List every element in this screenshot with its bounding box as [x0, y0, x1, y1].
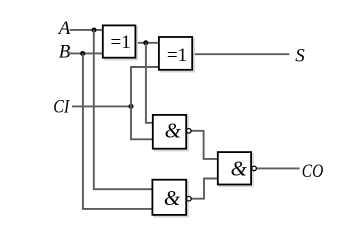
svg-text:CI: CI [53, 97, 70, 118]
wire B input [67, 52, 103, 54]
wire B branch down to NAND G2 [83, 53, 153, 209]
node B junction [80, 51, 85, 56]
node A junction [92, 28, 97, 33]
inverter bubble G3 [252, 166, 257, 171]
wire XOR U2 output to S [192, 53, 289, 55]
svg-text:CO: CO [302, 161, 324, 182]
wire CI branch up to XOR U2 [131, 67, 159, 106]
nand gate G3 (&) [218, 152, 257, 186]
wire NAND G2 output to NAND G3 [191, 179, 218, 199]
wire A branch down to NAND G2 [94, 30, 153, 189]
svg-text:S: S [295, 46, 305, 67]
wire A input [70, 29, 103, 31]
xor gate U2 (=1) [159, 37, 194, 72]
wire CI input [72, 105, 131, 107]
xor gate U1 (=1) [103, 25, 137, 59]
wire NAND G3 output to CO [257, 167, 300, 169]
svg-text:B: B [59, 41, 71, 62]
nand gate G2 (&) [152, 180, 191, 217]
svg-text:=1: =1 [111, 32, 131, 53]
inverter bubble G1 [187, 129, 192, 134]
wire XOR U1 output to XOR U2 [135, 42, 159, 44]
svg-text:A: A [57, 18, 71, 39]
svg-text:=1: =1 [167, 45, 187, 66]
svg-text:&: & [164, 186, 181, 210]
wire CI branch down to NAND G1 [131, 106, 153, 139]
node CI junction [129, 104, 134, 109]
svg-text:&: & [231, 156, 248, 180]
nand gate G1 (&) [153, 115, 191, 151]
svg-text:&: & [165, 119, 182, 143]
node XOR U1 output junction [143, 40, 148, 45]
wire NAND G1 output to NAND G3 [191, 131, 218, 159]
inverter bubble G2 [187, 196, 192, 201]
wire XOR U1 output branch down to NAND G1 [146, 43, 153, 123]
